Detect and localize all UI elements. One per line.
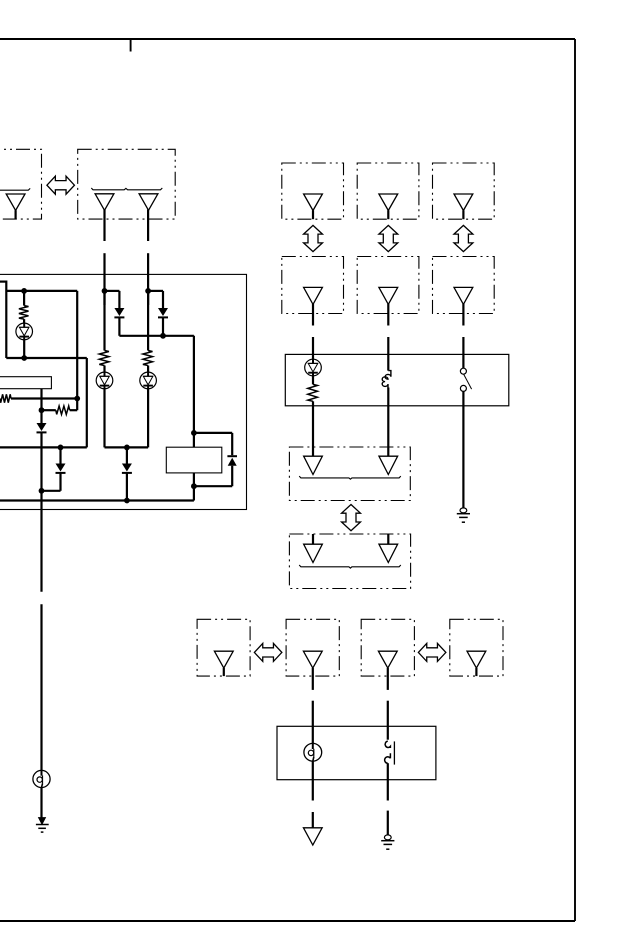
wire to bulb B2 [40, 604, 42, 770]
wire mid horizontal [6, 357, 87, 359]
wire J10 down [126, 447, 128, 463]
wire R2 to J3 [11, 397, 77, 399]
connector box C12 (dash-dot) [286, 619, 339, 676]
LED D7 [140, 372, 157, 389]
LED D1 [16, 323, 33, 340]
wire J12 branch right [194, 432, 232, 434]
connector box C8 (dash-dot) [433, 257, 495, 314]
diode D4 [114, 308, 124, 317]
node J1 [21, 288, 27, 294]
wire stub C8 lower [462, 304, 464, 326]
wire D3 to J5 [42, 490, 61, 492]
wire pin B down [147, 291, 149, 351]
node J13 [191, 483, 197, 489]
switch SW1 upper contact [460, 368, 466, 374]
wire J6 down [59, 447, 61, 463]
relay box K1 [166, 447, 222, 473]
connector box C10 (dash-dot) [289, 534, 410, 589]
wire stub C10 left [312, 534, 314, 545]
ground G3 (chassis) [36, 818, 49, 833]
wire D8 down [126, 474, 128, 501]
wire col B to U2 [387, 337, 389, 371]
terminal in C4 [379, 194, 398, 211]
wire B2 to ground [40, 788, 42, 819]
connector box C9 (dash-dot) [289, 447, 410, 501]
terminal in C11 [214, 651, 233, 668]
terminal in C3 [304, 194, 323, 211]
resistor R4 [99, 351, 109, 366]
arrow A2 (C9 to C10) [342, 505, 361, 531]
terminal T1 in C1 [6, 194, 25, 210]
node J5 [39, 488, 45, 494]
frame tick mark [130, 39, 132, 52]
wire bar down [40, 389, 42, 423]
wire J1 down [23, 291, 25, 306]
wire D7 to J10 [127, 446, 148, 448]
bulb B1 [304, 743, 322, 761]
wire bottom horizontal of inner block [0, 446, 87, 448]
connector box C11 (dash-dot) [197, 619, 250, 676]
wire D10 to R6 [312, 376, 314, 385]
wire SW2 down [387, 763, 389, 800]
wire from T2 (upper) [103, 210, 105, 242]
diode D5 [158, 308, 168, 317]
connector line in C2 [91, 188, 162, 190]
terminal in C5 [454, 194, 473, 211]
node J6 [58, 445, 64, 451]
terminal T6 in C10 [304, 544, 323, 562]
wire stub C3 [312, 210, 314, 219]
diode D8 [122, 464, 132, 473]
arrow C4 pair [379, 225, 398, 251]
wire D6 to J10 [105, 446, 127, 448]
arrow A3 (C11 to C12) [254, 643, 282, 661]
ground G1 [457, 508, 470, 522]
wire R1 to LED D1 [23, 319, 25, 323]
node J8 [160, 333, 166, 339]
arrow A4 (C13 to C14) [418, 643, 446, 661]
wire D6 down [103, 389, 105, 448]
ground G2 [381, 835, 394, 849]
wire D2 down long [40, 433, 42, 592]
wire D1 down [23, 340, 25, 358]
connector box C3 (dash-dot) [282, 163, 344, 219]
wire D5 down [162, 318, 164, 336]
wire stub C10 right [387, 534, 389, 545]
terminal T4 in C9 [304, 456, 323, 474]
wire stub T1 [15, 210, 17, 219]
lamp unit box U3 [277, 726, 436, 779]
wire branch down x163 [162, 291, 164, 308]
wire R3 to x77 [70, 409, 78, 411]
terminal in C7 [379, 287, 398, 304]
wire D7 down [147, 389, 149, 448]
switch SW2 lower contact [385, 753, 391, 763]
node J11 [124, 498, 130, 504]
wire stub C11 [223, 668, 225, 676]
border frame top line [0, 38, 575, 40]
wire stub C5 [462, 210, 464, 219]
resistor R6 [308, 384, 318, 401]
wire L1 down to C9 [387, 388, 389, 457]
terminal in C12 [303, 651, 322, 668]
gauge assembly box U1 [0, 274, 247, 509]
node J7 (pin A) [102, 288, 108, 294]
wire J3 stub down [76, 399, 78, 411]
resistor R3 [56, 406, 70, 414]
wire pin A down [103, 291, 105, 351]
bulb B2 [33, 770, 50, 787]
terminal in C8 [454, 287, 473, 304]
wire B1 down [312, 761, 314, 800]
terminal in C6 [304, 287, 323, 304]
wire horizontal y336 [119, 335, 193, 337]
switch SW2 upper contact [385, 741, 390, 748]
terminal in C14 [467, 651, 486, 668]
arrow C5 pair [454, 225, 473, 251]
connector box C5 (dash-dot) [433, 163, 495, 219]
connector box C2 (dash-dot) [78, 149, 176, 219]
wire col C to U2 [462, 337, 464, 368]
wire J7 branch right [105, 290, 120, 292]
wire stub C6 lower [312, 304, 314, 326]
wire stub C4 [387, 210, 389, 219]
arrow C3 pair [304, 225, 323, 251]
node J10 [124, 445, 130, 451]
wire stub left edge [0, 281, 6, 283]
wire D9 down [231, 466, 233, 487]
wire R5 to LED D7 [147, 366, 149, 373]
diode D3 [56, 464, 66, 473]
wire D3 down [59, 474, 61, 491]
node J2 [21, 355, 27, 361]
LED D10 [305, 359, 322, 376]
wire inner top horizontal [6, 290, 77, 292]
coil L1 [382, 371, 391, 388]
connector box C6 (dash-dot) [282, 257, 344, 314]
wire branch down x232 [231, 433, 233, 455]
wire to ground G2 [387, 811, 389, 835]
terminal T5 in C9 [379, 456, 398, 474]
resistor R1 [19, 306, 29, 320]
wire col A to U2 [312, 337, 314, 360]
connector box C7 (dash-dot) [357, 257, 419, 314]
wire vertical x87 [86, 358, 88, 447]
node J9 (pin B) [145, 288, 151, 294]
diode D2 [37, 423, 47, 432]
wire stub C7 lower [387, 304, 389, 326]
switch SW2 blade bar [393, 741, 395, 764]
wire to gauge box pin B [147, 253, 149, 305]
node J4 [39, 407, 45, 413]
terminal T2 in C2 [95, 194, 114, 211]
border frame bottom line [0, 920, 575, 922]
wire bottom bus y500 [0, 499, 194, 501]
bus bar plate [0, 377, 51, 389]
connector line in C1 [0, 188, 30, 190]
wire vertical x194 [193, 336, 195, 447]
wire R4 to LED D6 [103, 366, 105, 373]
wire from C12 [312, 668, 314, 690]
wire J9 branch right [148, 290, 163, 292]
wire D9 to J13 [194, 485, 232, 487]
connector box C14 (dash-dot) [450, 619, 503, 676]
wire K1 down [193, 473, 195, 501]
wire inner-left vertical [5, 281, 7, 359]
wire SW1 to ground [462, 391, 464, 508]
connector box C13 (dash-dot) [361, 619, 414, 676]
node J3 [74, 396, 80, 402]
terminal T7 in C10 [379, 544, 398, 562]
arrow A1 (C1 to C2) [47, 176, 74, 194]
connector line in C10 [299, 565, 401, 568]
wire to out-arrow [312, 812, 314, 829]
terminal T3 in C2 [139, 194, 158, 211]
wire from C13 [387, 668, 389, 690]
wire stub C14 [475, 668, 477, 676]
LED D6 [96, 372, 113, 389]
relay unit box U2 [285, 354, 509, 405]
wire R6 down to C9 [312, 401, 314, 456]
connector line in C9 [299, 476, 401, 479]
wire D4 down [118, 318, 120, 336]
wire from T3 (upper) [147, 210, 149, 242]
terminal arrow T8 (continuation) [303, 828, 322, 845]
wire J4 to R3 [42, 409, 56, 411]
connector box C1 (dash-dot, left, cut off) [0, 149, 42, 219]
wire branch down x119 [118, 291, 120, 308]
border frame right line [574, 39, 576, 921]
terminal in C13 [378, 651, 397, 668]
resistor R2 (left edge) [0, 394, 11, 402]
connector box C4 (dash-dot) [357, 163, 419, 219]
wire C13 to U3 [387, 701, 389, 740]
node J12 [191, 430, 197, 436]
wire vertical x77 [76, 291, 78, 399]
wire C12 to U3 [312, 701, 314, 744]
resistor R5 [143, 351, 153, 366]
diode D9 (up) [227, 456, 237, 466]
wire to gauge box pin A [103, 253, 105, 305]
switch SW1 lower contact [460, 385, 466, 391]
switch SW1 blade [464, 374, 472, 389]
